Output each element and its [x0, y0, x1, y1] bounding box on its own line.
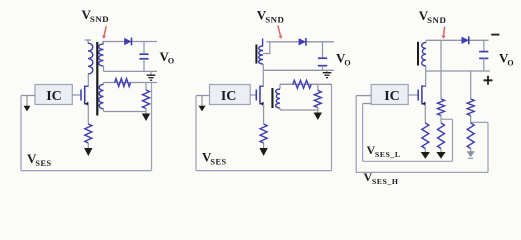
- transformer core: [96, 42, 98, 116]
- wire: secondary bottom stub: [103, 66, 105, 71]
- divider bottom wire: [104, 111, 147, 113]
- svg-text:SES: SES: [35, 159, 51, 168]
- diode D1: [124, 38, 131, 45]
- wire: resistor to ground: [87, 143, 89, 149]
- primary winding: [88, 43, 93, 74]
- divider resistor R8 (col2 upper): [438, 99, 445, 116]
- auxiliary winding top stub: [103, 83, 105, 85]
- wire: cap top stub (circuit 3): [483, 40, 485, 51]
- capacitor C1: [139, 53, 148, 55]
- MOSFET Q2: [255, 90, 257, 101]
- inner bottom rail (V_SES_L): [363, 160, 453, 162]
- aux winding top stub (circuit 2): [279, 84, 281, 89]
- wire: inductor bottom to drain and return (circuit 3): [425, 66, 427, 86]
- left rail: [20, 96, 22, 171]
- wire: cap bottom stub (circuit 2): [322, 66, 324, 71]
- outer right rail up to col3 tap: [487, 122, 489, 172]
- inductor top overshoot stub: [262, 39, 264, 47]
- aux winding bottom stub (circuit 2): [279, 108, 281, 110]
- col2 mid wire: [440, 116, 442, 124]
- outer tap wire to col3 mid node: [471, 121, 488, 123]
- auxiliary winding bottom stub: [103, 109, 105, 112]
- diode D2: [299, 38, 306, 45]
- bottom rail V_SES: [21, 170, 152, 172]
- output return wire (circuit 3): [426, 70, 490, 72]
- output return wire (circuit 2): [263, 69, 334, 71]
- svg-text:SND: SND: [427, 15, 446, 25]
- wire: source to resistor: [87, 104, 89, 124]
- aux winding core bar (circuit 2): [271, 88, 273, 108]
- wire: R6 to ground: [317, 108, 319, 113]
- ground arrow under R7: [421, 152, 430, 159]
- divider resistor R3: [143, 90, 150, 109]
- inner right riser: [452, 119, 454, 161]
- svg-text:O: O: [344, 58, 351, 67]
- primary winding top stub: [85, 39, 92, 41]
- divider resistor R10 (col3 upper): [467, 99, 474, 116]
- tap wire from col2 mid node: [441, 118, 453, 120]
- inductor core bar (circuit 3): [417, 42, 419, 66]
- source resistor R1: [85, 124, 92, 143]
- wire: primary to MOSFET drain: [85, 74, 89, 86]
- divider resistor R9 (col2 lower): [438, 123, 445, 149]
- col2 drop wire from V_SND node: [440, 40, 442, 99]
- wire: cap top stub (circuit 2): [322, 42, 324, 58]
- divider resistor R3 (vertical) stub: [145, 83, 147, 91]
- outer left rail (V_SES_H): [355, 96, 357, 173]
- source resistor R7: [422, 123, 429, 149]
- col3 drop wire from output return: [470, 71, 472, 99]
- ground arrow under source resistor: [84, 148, 92, 156]
- minus sign output polarity: [491, 34, 499, 36]
- MOSFET Q3: [417, 90, 419, 101]
- wire: cap bottom stub (circuit 3): [483, 58, 485, 71]
- ground arrow under R9: [436, 152, 445, 159]
- svg-text:SND: SND: [90, 14, 109, 24]
- secondary top winding: [99, 44, 104, 66]
- IC box (circuit 3): [371, 85, 408, 105]
- wire: capacitor bottom stub: [143, 59, 145, 72]
- inductor top stub (circuit 3): [425, 40, 427, 42]
- main inductor winding (circuit 3): [422, 43, 426, 67]
- wire: R9 to ground: [440, 149, 442, 153]
- ground (earth) circuit 2: [326, 70, 328, 72]
- divider bottom wire (circuit 2): [280, 109, 318, 111]
- ground arrow at divider (circuit 2): [314, 113, 322, 121]
- ground arrow under source resistor (circuit 2): [259, 148, 267, 156]
- right rail (circuit 2): [331, 84, 333, 170]
- inner left rail (V_SES_L): [362, 104, 364, 162]
- svg-text:IC: IC: [221, 89, 237, 104]
- left rail (circuit 2): [195, 96, 197, 171]
- wire: tap node to diode row: [267, 41, 335, 43]
- divider resistor R2 (horizontal): [115, 79, 131, 87]
- svg-text:SES_H: SES_H: [372, 177, 399, 186]
- bottom rail V_SES (circuit 2): [196, 170, 332, 172]
- wire: IC to left rail (circuit 2): [196, 95, 210, 97]
- wire: IC to gate: [72, 94, 81, 96]
- wire: source to resistor (circuit 2): [263, 104, 265, 124]
- plus sign output polarity: [484, 76, 493, 85]
- divider resistor R6 stub: [317, 84, 319, 90]
- current direction arrow (circuit 2): [201, 96, 203, 107]
- auxiliary winding: [99, 84, 104, 109]
- outer bottom rail (V_SES_H): [356, 171, 488, 173]
- svg-text:IC: IC: [384, 89, 400, 104]
- red arrow pointer (circuit 3): [444, 27, 445, 36]
- wire: R7 to ground: [424, 149, 426, 153]
- wire: capacitor top stub: [143, 42, 145, 55]
- tap step wire: [263, 42, 270, 54]
- svg-text:O: O: [168, 57, 175, 66]
- wire: IC to gate (circuit 3): [408, 94, 418, 96]
- wire: resistor to ground (circuit 2): [263, 143, 265, 149]
- svg-text:SES: SES: [210, 157, 226, 166]
- ground arrow at divider: [142, 114, 150, 122]
- wire: source down (circuit 3): [424, 104, 426, 123]
- wire: inductor bottom to drain and output return: [262, 64, 264, 86]
- source resistor R4: [260, 124, 267, 143]
- secondary top winding stub: [103, 42, 105, 45]
- ground (earth) at output return: [150, 71, 152, 75]
- MOSFET Q1: [80, 90, 82, 101]
- red arrow pointer to V_SND node (circuit 1): [104, 26, 106, 35]
- auxiliary divider top wire: [104, 82, 158, 84]
- divider top wire (circuit 2): [280, 83, 332, 85]
- IC box (circuit 1): [35, 85, 72, 105]
- wire: IC to outer left rail: [356, 95, 371, 97]
- svg-text:O: O: [507, 58, 514, 67]
- wire: IC to gate (circuit 2): [250, 94, 256, 96]
- divider resistor R6: [314, 91, 321, 108]
- diode D3: [462, 37, 469, 44]
- wire: R3 to ground: [145, 109, 147, 114]
- divider resistor R11 (col3 lower): [467, 123, 474, 149]
- main inductor winding (circuit 2): [259, 46, 263, 64]
- wire: IC to left rail: [21, 95, 35, 97]
- svg-text:IC: IC: [46, 89, 62, 104]
- IC box (circuit 2): [210, 85, 251, 105]
- divider resistor R5 (horizontal): [293, 80, 311, 88]
- svg-text:SND: SND: [265, 14, 284, 24]
- red arrow pointer to tap node (circuit 2): [278, 26, 281, 36]
- wire: output return: [104, 70, 158, 72]
- inductor core bar (circuit 2): [255, 45, 257, 64]
- svg-text:SES_L: SES_L: [375, 150, 401, 159]
- wire: secondary top node to diode and output + terminal: [102, 41, 157, 43]
- col3 mid wire: [470, 116, 472, 124]
- capacitor C2: [318, 57, 327, 59]
- ground arrow under R11 (light): [467, 151, 475, 157]
- wire: R11 to ground: [470, 149, 472, 152]
- wire: IC to inner left rail: [363, 103, 372, 105]
- capacitor C3: [479, 51, 488, 53]
- aux winding (circuit 2): [276, 89, 280, 108]
- top wire: inductor to diode to cap (circuit 3): [426, 39, 489, 41]
- current direction arrow on V_SES wire: [26, 96, 28, 107]
- right rail: [151, 83, 153, 171]
